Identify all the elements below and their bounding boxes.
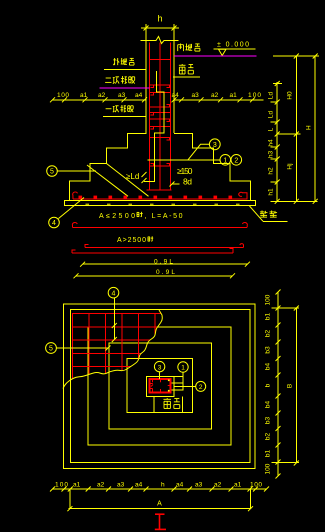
svg-text:≥Ld: ≥Ld <box>126 172 139 181</box>
stagger hook tick <box>142 178 147 183</box>
svg-text:4: 4 <box>112 290 116 297</box>
plan bottom dimension chain (100 a1 a2 a3 a4 h a4 a3 a2 a1 100) <box>50 482 269 492</box>
yellow lap length label >=Ld (left of wall) <box>126 172 147 181</box>
right dimension chain a4 a3 a2 a1 100 <box>172 92 264 102</box>
svg-text:h: h <box>161 482 165 489</box>
svg-text:a4: a4 <box>135 92 143 99</box>
plan overall B dimension <box>272 306 300 466</box>
label 内地台 <box>178 44 184 52</box>
svg-text:5: 5 <box>49 346 53 353</box>
column section (red) <box>149 379 170 393</box>
break cloud (wavy boundary) <box>63 310 162 389</box>
wall outline in plan <box>146 377 174 397</box>
svg-text:100: 100 <box>55 482 68 489</box>
svg-text:8d: 8d <box>183 177 192 187</box>
wall left face <box>145 41 147 134</box>
label 二次接驳 with magenta level line <box>100 76 150 88</box>
svg-text:b3: b3 <box>265 346 272 354</box>
left dimension chain 100 a1 a2 a3 a4 <box>50 92 147 102</box>
label 外地台 <box>104 58 146 70</box>
svg-text:a2: a2 <box>214 482 222 489</box>
svg-text:4: 4 <box>52 220 56 227</box>
circle 4 (plan) with leader <box>108 287 119 342</box>
svg-text:A: A <box>157 501 162 508</box>
blinding joint dashes <box>86 203 240 205</box>
rebar mesh (red, clipped by break cloud) <box>72 313 167 388</box>
svg-text:1: 1 <box>181 365 185 372</box>
svg-text:≥150: ≥150 <box>177 166 193 176</box>
plan right dimension chain (100 b1 b2 b3 b4 b b4 b3 b2 b1 100) <box>265 290 281 479</box>
svg-text:a1: a1 <box>73 482 81 489</box>
svg-text:h2: h2 <box>268 167 275 175</box>
load-spread diagonals (left) <box>87 165 128 196</box>
svg-text:5: 5 <box>50 169 54 176</box>
right vertical dimension chain 2 (H0 Hj) <box>277 54 300 204</box>
svg-text:h1: h1 <box>268 188 275 196</box>
label 一次接驳 <box>103 105 146 117</box>
circle 5 (plan) with leader <box>46 343 111 354</box>
svg-text:0.9L: 0.9L <box>156 269 175 276</box>
svg-text:2: 2 <box>199 384 203 391</box>
svg-text:H: H <box>306 125 313 130</box>
svg-text:Hj: Hj <box>287 163 294 169</box>
wall top edge with break symbol <box>141 37 179 44</box>
svg-text:3: 3 <box>158 364 162 371</box>
circle 3 (section) with leader <box>188 139 220 160</box>
label 窗台 (wall) <box>173 64 200 77</box>
left foundation steps <box>69 117 146 201</box>
rebar vertical bars in wall <box>150 43 171 191</box>
right vertical dimension chain 3 (H) <box>306 54 318 204</box>
rebar schedule bar 1 (A<=2500) <box>72 212 247 228</box>
circle 1 (plan) with leader ladder <box>172 362 189 391</box>
magenta inner floor level line <box>174 55 257 57</box>
svg-text:100: 100 <box>265 463 272 474</box>
svg-text:a3: a3 <box>118 92 126 99</box>
svg-text:a3: a3 <box>195 482 203 489</box>
label 垫层 with leader <box>250 206 288 221</box>
svg-text:b3: b3 <box>265 417 272 425</box>
section cut mark I (red) <box>155 514 166 529</box>
circle 3 (plan) with leader <box>154 361 164 379</box>
rebar schedule bar 2 (A>2500) <box>72 236 244 253</box>
svg-text:B: B <box>287 384 294 388</box>
right vertical dimension chain 1 (Ld Ld L h4 h3 h2 h1) <box>268 81 282 204</box>
svg-text:a1: a1 <box>230 92 238 99</box>
svg-text:a4: a4 <box>135 482 143 489</box>
level mark ±0.000 <box>214 42 256 56</box>
splice stagger line (yellow zigzag inside wall) <box>144 71 164 181</box>
svg-text:100: 100 <box>57 92 69 99</box>
svg-text:b1: b1 <box>265 450 272 458</box>
slab bottom rebar with cross-bar marks <box>73 192 248 199</box>
svg-text:h3: h3 <box>268 151 275 159</box>
plan rect 3 (step 1) <box>88 327 231 445</box>
svg-text:a2: a2 <box>98 92 106 99</box>
svg-text:a2: a2 <box>97 482 105 489</box>
svg-text:1: 1 <box>223 158 227 165</box>
svg-text:a2: a2 <box>211 92 219 99</box>
level extension line to chains <box>273 55 319 57</box>
svg-text:L: L <box>268 127 275 131</box>
svg-text:2: 2 <box>234 158 238 165</box>
svg-text:b2: b2 <box>265 330 272 338</box>
plan rect 1 (blinding outline) <box>64 304 256 469</box>
svg-text:Ld: Ld <box>268 92 275 100</box>
circle 2 (plan) with leader <box>174 381 205 391</box>
窗台 callout box in plan <box>154 396 182 412</box>
svg-text:Ld: Ld <box>268 111 275 119</box>
svg-text:b4: b4 <box>265 401 272 409</box>
rebar ties in wall <box>147 60 172 191</box>
dimension h (wall thickness, top) <box>141 14 179 41</box>
bottom connector line of chains <box>271 200 318 202</box>
svg-text:H0: H0 <box>287 91 294 100</box>
right foundation steps <box>174 134 251 201</box>
svg-text:a1: a1 <box>234 482 242 489</box>
dimension 0.9L (first) <box>80 258 250 266</box>
plan overall A dimension <box>67 489 253 511</box>
plan rect 4 (step 2) <box>109 343 211 429</box>
svg-text:a4: a4 <box>176 482 184 489</box>
svg-text:b1: b1 <box>265 313 272 321</box>
plan rect 2 (footing outline) <box>70 310 250 463</box>
svg-text:b4: b4 <box>265 363 272 371</box>
svg-text:A>2500: A>2500 <box>117 237 146 244</box>
svg-text:100: 100 <box>265 294 272 305</box>
svg-text:a3: a3 <box>192 92 200 99</box>
circles 1 2 (section) with leader <box>148 155 242 166</box>
lap length labels >=150 8d with tick <box>170 166 193 187</box>
plan rect 5 (step 3) <box>127 359 192 413</box>
tie hooks <box>151 85 170 166</box>
svg-text:b2: b2 <box>265 433 272 441</box>
wall right face <box>173 41 175 134</box>
dimension 0.9L (second) <box>74 269 236 279</box>
svg-text:h: h <box>157 14 162 24</box>
blinding layer 垫层 box <box>64 201 255 206</box>
svg-text:a3: a3 <box>117 482 125 489</box>
circle 5 (section) <box>47 166 96 177</box>
circle 4 (section) with leader to slab rebar <box>49 198 84 228</box>
svg-text:h4: h4 <box>268 139 275 147</box>
svg-text:b: b <box>265 383 272 387</box>
svg-text:3: 3 <box>213 142 217 149</box>
